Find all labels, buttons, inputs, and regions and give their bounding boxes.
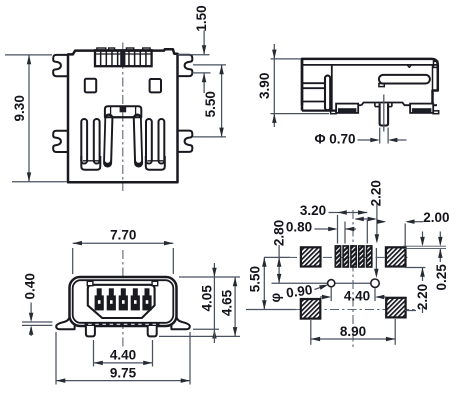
svg-text:3.90: 3.90: [257, 73, 272, 99]
svg-text:2.20: 2.20: [415, 284, 430, 310]
svg-text:φ: φ: [268, 293, 283, 303]
svg-text:9.30: 9.30: [12, 95, 27, 121]
svg-text:4.05: 4.05: [199, 285, 214, 312]
svg-text:1.50: 1.50: [194, 5, 209, 31]
svg-text:3.20: 3.20: [300, 203, 326, 218]
svg-text:2.20: 2.20: [368, 180, 383, 206]
svg-text:2.80: 2.80: [272, 220, 287, 246]
svg-text:5.50: 5.50: [203, 91, 218, 117]
svg-text:4.65: 4.65: [220, 289, 235, 316]
svg-text:9.75: 9.75: [110, 365, 137, 380]
svg-text:0.40: 0.40: [22, 273, 37, 299]
svg-text:8.90: 8.90: [340, 324, 366, 339]
svg-text:0.80: 0.80: [286, 219, 312, 234]
svg-text:4.40: 4.40: [344, 288, 370, 303]
svg-text:7.70: 7.70: [110, 227, 136, 242]
svg-text:5.50: 5.50: [247, 266, 262, 292]
svg-text:0.25: 0.25: [434, 264, 449, 291]
svg-text:4.40: 4.40: [110, 347, 136, 362]
svg-text:2.00: 2.00: [423, 210, 449, 225]
svg-text:Φ 0.70: Φ 0.70: [314, 131, 355, 146]
